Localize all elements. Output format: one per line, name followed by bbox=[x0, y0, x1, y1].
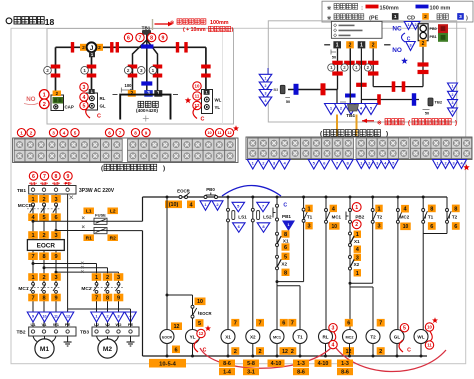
svg-text:12: 12 bbox=[282, 349, 288, 355]
svg-text:3-1: 3-1 bbox=[247, 369, 255, 375]
svg-text:2: 2 bbox=[355, 222, 358, 228]
svg-text:10: 10 bbox=[427, 325, 432, 330]
limit switch LS1 bbox=[227, 208, 230, 211]
junction PB1 bottom bbox=[276, 280, 279, 283]
svg-text:W1: W1 bbox=[53, 322, 60, 327]
circled 10 WL bbox=[425, 323, 433, 331]
branch T2a contact bbox=[371, 196, 374, 199]
svg-text:10: 10 bbox=[403, 224, 409, 230]
tag 3 T2a bbox=[375, 222, 382, 229]
label (3) fan bbox=[138, 67, 146, 75]
svg-text:3: 3 bbox=[140, 68, 143, 73]
svg-text:W2: W2 bbox=[116, 322, 123, 327]
svg-text:2: 2 bbox=[258, 349, 261, 355]
svg-text:): ) bbox=[455, 121, 457, 127]
svg-text:4: 4 bbox=[63, 130, 66, 135]
connector 7 8 9 below MC1 bbox=[28, 294, 38, 302]
green cap square bbox=[438, 33, 448, 42]
wire phase S bbox=[43, 194, 45, 283]
tag 12 MC1 bbox=[280, 347, 291, 355]
contact X1 NO bbox=[276, 232, 279, 235]
svg-text:9: 9 bbox=[54, 296, 57, 302]
tag 8 b bbox=[282, 269, 290, 276]
svg-text:3: 3 bbox=[265, 91, 267, 95]
saddle blue on A bbox=[294, 84, 299, 95]
svg-text:YL: YL bbox=[190, 335, 196, 340]
svg-text:1: 1 bbox=[31, 197, 34, 203]
branch MC1 aux bbox=[325, 196, 328, 199]
svg-text:8-6: 8-6 bbox=[341, 369, 349, 375]
lamp box WL YL bbox=[202, 90, 213, 114]
marker triangle 6 bbox=[233, 223, 246, 233]
svg-text:6: 6 bbox=[347, 321, 350, 327]
svg-text:8: 8 bbox=[55, 174, 58, 180]
saddles on fan wire 1 bbox=[128, 65, 138, 69]
coil YL bbox=[186, 330, 200, 344]
wire tag 1-3 8-6 bbox=[293, 360, 309, 367]
svg-text:10: 10 bbox=[43, 315, 47, 319]
red star upper strip bbox=[233, 125, 239, 131]
svg-text:1: 1 bbox=[336, 43, 339, 49]
legend connector CD 2 bbox=[422, 13, 429, 20]
fuse tap wire 2 bbox=[55, 229, 58, 232]
svg-text:8-6: 8-6 bbox=[297, 369, 305, 375]
self hold spur to T2 coil bbox=[350, 286, 373, 288]
red arc RL bbox=[334, 332, 336, 342]
tag 10 bbox=[195, 298, 206, 306]
svg-text:R1: R1 bbox=[86, 235, 92, 241]
tag 1 X2b bbox=[354, 269, 361, 276]
wire: lamp CAP drop bbox=[55, 47, 57, 93]
fuse F2 bbox=[94, 228, 107, 234]
saddle blue on center drop bbox=[345, 94, 356, 98]
coil X2 bbox=[246, 330, 260, 344]
svg-text:C: C bbox=[97, 114, 101, 120]
jumper arc blue bbox=[222, 186, 281, 197]
svg-text:1: 1 bbox=[356, 271, 359, 277]
svg-text:): ) bbox=[466, 15, 468, 21]
svg-text:LS1: LS1 bbox=[238, 215, 247, 220]
svg-text:10: 10 bbox=[207, 131, 211, 135]
coil EOCR bbox=[160, 330, 174, 344]
svg-text:6: 6 bbox=[430, 224, 433, 230]
tag 6 T2 delay bbox=[452, 222, 460, 230]
wire right loop bbox=[373, 86, 423, 88]
svg-text:(10): (10) bbox=[169, 202, 179, 208]
svg-text:11: 11 bbox=[195, 94, 200, 99]
terminal TB4 trapezoid bbox=[348, 105, 359, 112]
lead-out wire above TB1 bbox=[152, 19, 154, 30]
wire: WL YL drop bbox=[205, 47, 207, 90]
pushbutton box PB0 PB1 bbox=[418, 24, 428, 41]
title 공개문제 18 bbox=[6, 18, 12, 24]
svg-text:X2: X2 bbox=[281, 261, 287, 266]
NC wire mark triangles bbox=[404, 22, 413, 30]
contact EOCR NO in YL branch bbox=[191, 305, 194, 308]
saddles on fan wire 3 bbox=[153, 65, 163, 69]
wire horizontal A bbox=[288, 89, 338, 91]
svg-text:PB1: PB1 bbox=[282, 214, 291, 219]
coil WL bbox=[414, 330, 428, 344]
branch PB2 chain bbox=[349, 196, 352, 199]
svg-text:B3: B3 bbox=[274, 88, 279, 92]
saddle 150mm S2 S3 pair bbox=[110, 42, 113, 53]
svg-text:3: 3 bbox=[452, 101, 454, 105]
circled 6 7 8 9 at TB1 bbox=[29, 172, 37, 180]
svg-text:11: 11 bbox=[427, 343, 432, 348]
wire tag 4-10 b bbox=[315, 360, 332, 367]
svg-text:2: 2 bbox=[106, 275, 109, 281]
tag 2 X1 bbox=[231, 347, 239, 355]
svg-text:1: 1 bbox=[452, 85, 454, 89]
tag 7 X1 bbox=[231, 319, 239, 327]
svg-text:5: 5 bbox=[83, 103, 86, 109]
top bus bbox=[143, 196, 448, 198]
wire tag 10-5-4 bbox=[149, 359, 186, 368]
saddle 100mm blue on TB1 wire bbox=[141, 44, 154, 48]
svg-text:1: 1 bbox=[43, 92, 46, 98]
marker triangles M1 wires bbox=[27, 312, 39, 322]
circled 4 RL bbox=[329, 340, 337, 348]
svg-text:※: ※ bbox=[377, 119, 382, 127]
branch wires to MC2 bbox=[32, 262, 35, 265]
svg-text:6: 6 bbox=[284, 245, 287, 251]
svg-text:5: 5 bbox=[392, 161, 394, 165]
svg-text:RL: RL bbox=[100, 96, 106, 101]
component CAP box bbox=[51, 95, 64, 111]
svg-text:7: 7 bbox=[234, 321, 237, 327]
red star WL bbox=[432, 317, 438, 323]
svg-text::: : bbox=[361, 5, 363, 11]
tag 4 MC1 aux bbox=[330, 205, 337, 212]
svg-text:3: 3 bbox=[83, 85, 86, 91]
red C mark GL bbox=[399, 340, 403, 352]
terminal block TB1 bbox=[29, 186, 76, 195]
svg-text:5: 5 bbox=[403, 326, 406, 332]
svg-text:7: 7 bbox=[379, 321, 382, 327]
legend red saddle sample bbox=[366, 5, 379, 9]
coil X1 bbox=[221, 330, 235, 344]
svg-text:3: 3 bbox=[332, 326, 335, 332]
tag 2 T1 bbox=[288, 347, 296, 355]
svg-text:): ) bbox=[163, 165, 165, 172]
svg-text:8: 8 bbox=[42, 254, 45, 260]
label L2 fuse bbox=[107, 208, 118, 215]
tag 7 X2 bbox=[256, 319, 264, 327]
svg-text:MC1: MC1 bbox=[273, 335, 281, 339]
tag 10 MC2 aux bbox=[400, 223, 411, 231]
tag 3 T1a bbox=[305, 222, 312, 229]
svg-text:4: 4 bbox=[332, 342, 335, 348]
svg-text:6: 6 bbox=[454, 224, 457, 230]
wire tag 4-10 bbox=[268, 360, 285, 367]
svg-text:10: 10 bbox=[332, 224, 338, 230]
svg-text:T2: T2 bbox=[370, 335, 376, 340]
svg-text:GL: GL bbox=[394, 335, 401, 340]
junction PB2 bottom bbox=[349, 282, 352, 285]
svg-text:※: ※ bbox=[327, 4, 331, 11]
svg-text:9: 9 bbox=[117, 296, 120, 302]
red star at YL bbox=[205, 325, 211, 331]
svg-text:2: 2 bbox=[42, 275, 45, 281]
red cap square bbox=[438, 24, 448, 33]
svg-text:7: 7 bbox=[95, 296, 98, 302]
svg-text:3: 3 bbox=[459, 14, 462, 20]
tag 6 EOCR bbox=[172, 346, 180, 354]
svg-text:1: 1 bbox=[31, 233, 34, 239]
svg-text:7: 7 bbox=[291, 321, 294, 327]
svg-text:5: 5 bbox=[74, 130, 77, 135]
svg-text:2: 2 bbox=[422, 41, 425, 47]
svg-text:3: 3 bbox=[377, 224, 380, 230]
wire PE down bbox=[67, 194, 69, 327]
svg-text:7: 7 bbox=[139, 35, 142, 41]
svg-text:1: 1 bbox=[265, 76, 267, 80]
svg-text:2: 2 bbox=[379, 349, 382, 355]
svg-text:3: 3 bbox=[54, 197, 57, 203]
junction box J bbox=[87, 42, 97, 52]
svg-text:7: 7 bbox=[31, 296, 34, 302]
svg-text:NO: NO bbox=[392, 47, 402, 54]
svg-text:1: 1 bbox=[360, 161, 362, 165]
svg-text:T1: T1 bbox=[428, 215, 434, 220]
circled 3 4 5 bbox=[80, 83, 88, 91]
svg-text:11: 11 bbox=[54, 315, 58, 319]
svg-text:2: 2 bbox=[414, 23, 416, 27]
tag 1 T1a bbox=[305, 205, 312, 212]
svg-text:1-3: 1-3 bbox=[297, 361, 305, 367]
svg-text:8: 8 bbox=[106, 296, 109, 302]
svg-text:1-3: 1-3 bbox=[341, 361, 349, 367]
circled 2 PB2 bbox=[352, 220, 361, 229]
tag 1 T2a bbox=[375, 205, 382, 212]
wires MC1 to TB2 bbox=[32, 293, 34, 327]
svg-text:L2: L2 bbox=[110, 209, 116, 215]
connector row: CD 2 b bbox=[369, 41, 377, 48]
svg-text:9: 9 bbox=[67, 174, 70, 180]
tag 2 T2 bbox=[377, 347, 385, 355]
circled 12 red at YL bbox=[197, 329, 205, 337]
circled 5 GL bbox=[400, 324, 408, 332]
svg-text:PB0: PB0 bbox=[206, 187, 215, 192]
tag 6 MC1 bbox=[280, 319, 288, 327]
tag 8 bbox=[282, 230, 290, 237]
svg-text:T1: T1 bbox=[297, 335, 303, 340]
svg-text:4: 4 bbox=[83, 95, 86, 101]
svg-text:R2: R2 bbox=[110, 235, 116, 241]
circled 1 2 1 2 bbox=[328, 64, 335, 71]
svg-text:100 mm: 100 mm bbox=[430, 5, 451, 11]
upper terminal strip 제어판 상단 단자대 bbox=[13, 138, 238, 163]
svg-text:8-6: 8-6 bbox=[223, 361, 231, 367]
connector 2 orange into box bbox=[128, 90, 136, 97]
label (1) bbox=[81, 67, 89, 75]
saddles on RL GL drop bbox=[87, 65, 97, 69]
svg-text:PB2: PB2 bbox=[355, 214, 364, 219]
coil T2 bbox=[366, 330, 380, 344]
label (2) fan bbox=[124, 67, 132, 75]
svg-text:6: 6 bbox=[282, 321, 285, 327]
svg-text:( + 10mm: ( + 10mm bbox=[183, 27, 206, 33]
connector 1 2 3 above EOCR bbox=[28, 231, 38, 239]
svg-text:2: 2 bbox=[444, 161, 446, 165]
svg-text:MC2: MC2 bbox=[345, 335, 353, 339]
svg-text:3: 3 bbox=[54, 233, 57, 239]
saddles on PB drop bbox=[418, 62, 429, 66]
svg-text:9: 9 bbox=[162, 35, 165, 41]
svg-text:8: 8 bbox=[284, 270, 287, 276]
terminal pill left bbox=[280, 85, 285, 93]
svg-text:1: 1 bbox=[31, 275, 34, 281]
tag 12 EOCR bbox=[171, 322, 182, 330]
wire: RL GL drop bbox=[91, 52, 93, 90]
label L1 fuse bbox=[83, 208, 94, 215]
coil RL bbox=[319, 330, 333, 344]
svg-text:2: 2 bbox=[424, 14, 427, 20]
tag 6 T1 delay bbox=[428, 222, 436, 230]
svg-text:4: 4 bbox=[452, 109, 454, 113]
bottom bus bbox=[143, 355, 428, 357]
svg-text:12: 12 bbox=[199, 331, 204, 336]
svg-text:7: 7 bbox=[31, 254, 34, 260]
svg-text:CAP: CAP bbox=[65, 105, 74, 110]
saddle red lower bbox=[377, 94, 381, 105]
legend blue saddle sample bbox=[416, 5, 429, 9]
lower strip marker triangles bbox=[247, 160, 258, 170]
connector 4 5 6 bbox=[28, 213, 38, 221]
tag 6 bbox=[282, 243, 290, 250]
saddles on WL YL drop bbox=[201, 65, 211, 69]
connector 7 8 9 below EOCR bbox=[28, 252, 38, 260]
svg-text:2: 2 bbox=[372, 43, 375, 49]
svg-text:1: 1 bbox=[356, 232, 359, 238]
svg-text:2: 2 bbox=[98, 45, 101, 51]
red star lower strip bbox=[463, 164, 469, 170]
circled 1 PB2 bbox=[352, 203, 361, 212]
svg-text:2: 2 bbox=[265, 84, 267, 88]
wire fuse1 to rail bbox=[107, 220, 143, 222]
red C mark at GL bbox=[86, 106, 90, 118]
svg-text:U1: U1 bbox=[30, 322, 36, 327]
saddle small on drop 3 bbox=[356, 83, 367, 87]
svg-text:1: 1 bbox=[407, 23, 409, 27]
svg-text:2: 2 bbox=[30, 130, 33, 135]
parallel join timers bbox=[423, 233, 447, 235]
coil MC2 bbox=[343, 330, 357, 344]
connector 1 below J bbox=[89, 52, 95, 58]
TB4 marker triangles bbox=[325, 104, 338, 115]
svg-text:6: 6 bbox=[32, 174, 35, 180]
relay EOCR body bbox=[27, 240, 64, 251]
svg-text:7: 7 bbox=[258, 321, 261, 327]
svg-text:M2: M2 bbox=[103, 346, 112, 353]
red routing curve right bbox=[336, 348, 446, 372]
svg-text:PB1: PB1 bbox=[430, 35, 437, 39]
tag 5 bbox=[196, 319, 204, 327]
branch T1a contact bbox=[302, 196, 305, 199]
svg-text:3: 3 bbox=[356, 255, 359, 261]
svg-text:C: C bbox=[283, 202, 287, 208]
svg-text:2: 2 bbox=[42, 233, 45, 239]
svg-text:TB2: TB2 bbox=[435, 99, 443, 104]
svg-text:11: 11 bbox=[217, 131, 221, 135]
circled 1 bbox=[39, 90, 49, 100]
PE branch to TB3 bbox=[68, 308, 131, 310]
svg-text:3: 3 bbox=[54, 275, 57, 281]
svg-text:WL: WL bbox=[417, 335, 424, 340]
svg-text:TB2: TB2 bbox=[16, 330, 25, 336]
svg-text:2: 2 bbox=[127, 68, 130, 73]
svg-text:12: 12 bbox=[174, 324, 180, 330]
svg-text:X1: X1 bbox=[283, 239, 289, 244]
svg-text:(: ( bbox=[408, 121, 410, 127]
tag 7 T2 bbox=[377, 319, 385, 327]
svg-text:EOCR: EOCR bbox=[199, 311, 211, 316]
svg-text:MC2: MC2 bbox=[81, 286, 91, 292]
svg-text:8: 8 bbox=[134, 130, 137, 135]
tag 8 T2 delay bbox=[452, 205, 460, 213]
bus connection dots bottom bbox=[166, 355, 169, 358]
svg-text:8: 8 bbox=[430, 206, 433, 212]
svg-text:PE: PE bbox=[65, 322, 71, 327]
circled 11 WL bbox=[425, 341, 433, 349]
svg-text:MC1: MC1 bbox=[18, 286, 28, 292]
svg-text:T2: T2 bbox=[452, 215, 458, 220]
dimension 50 left bbox=[285, 97, 290, 99]
connector row: PE 1 b bbox=[358, 41, 366, 48]
label (1) fan bbox=[149, 67, 157, 75]
connector 3 blue into box bbox=[144, 90, 153, 97]
tag 12 MC2 bbox=[343, 347, 354, 355]
label (2) bbox=[44, 67, 52, 75]
svg-text:TB4: TB4 bbox=[346, 113, 355, 118]
svg-text:EOCR: EOCR bbox=[162, 335, 172, 339]
svg-text:2: 2 bbox=[82, 45, 85, 51]
svg-text:RL: RL bbox=[322, 335, 328, 340]
right panel wires: connector drops bbox=[337, 48, 339, 89]
connector 1 2 3 above MC2 bbox=[92, 273, 102, 281]
red star left panel bbox=[185, 97, 191, 103]
saddles on loop top bbox=[392, 81, 396, 92]
branch T2 timer contact bbox=[446, 197, 448, 234]
svg-text:3: 3 bbox=[307, 224, 310, 230]
svg-text:150mm: 150mm bbox=[380, 5, 399, 11]
tag 5 bbox=[282, 253, 290, 260]
svg-text:GL: GL bbox=[100, 104, 106, 109]
wire fuse2 to rail bbox=[107, 230, 143, 232]
svg-text:C: C bbox=[407, 348, 411, 354]
left panel enclosure bbox=[47, 29, 234, 125]
wire stubs connector row bbox=[324, 44, 330, 46]
svg-text:): ) bbox=[232, 27, 234, 33]
wire: top horizontal run bbox=[56, 46, 206, 48]
circled 10 11 12 bbox=[193, 82, 201, 90]
svg-text:TB1: TB1 bbox=[142, 25, 151, 30]
ground M1 bbox=[67, 336, 69, 342]
red routing curve left bbox=[200, 348, 331, 368]
svg-text:50: 50 bbox=[332, 56, 336, 60]
circled 2 bbox=[40, 99, 50, 109]
TB4 drop wires bbox=[336, 89, 338, 104]
circled 6 7 8 9 top bbox=[124, 33, 132, 41]
control rail left top bbox=[142, 197, 144, 221]
svg-text:X2: X2 bbox=[250, 335, 256, 340]
control box 제어함 400x420 bbox=[120, 95, 170, 120]
branch EOCR coil bbox=[166, 196, 169, 199]
svg-text:J: J bbox=[90, 45, 94, 52]
svg-text:6: 6 bbox=[54, 215, 57, 221]
svg-text:2: 2 bbox=[368, 161, 370, 165]
